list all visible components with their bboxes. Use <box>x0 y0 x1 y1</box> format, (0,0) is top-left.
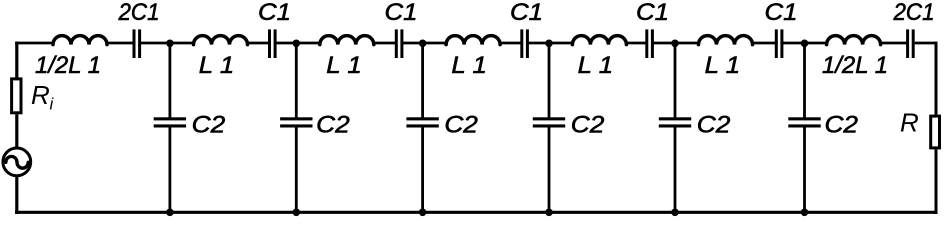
wire <box>881 42 908 45</box>
svg-text:C1: C1 <box>636 0 669 26</box>
label C1 section5 <box>636 0 669 26</box>
label L 1 section2 <box>199 52 235 79</box>
node 3 top junction <box>419 40 427 48</box>
capacitor 2C1 left <box>133 29 142 58</box>
svg-text:L 1: L 1 <box>578 52 614 79</box>
node 3 bottom junction <box>419 209 427 217</box>
node 6 top junction <box>801 40 809 48</box>
label C2 branch3 <box>444 112 478 139</box>
svg-text:C2: C2 <box>697 112 731 139</box>
svg-text:2C1: 2C1 <box>118 0 160 26</box>
wire <box>141 42 194 45</box>
svg-text:1/2L 1: 1/2L 1 <box>35 52 101 79</box>
inductor L1 section2 <box>194 36 248 45</box>
wire <box>753 42 777 45</box>
svg-text:C1: C1 <box>510 0 543 26</box>
label 2C1 left <box>118 0 160 26</box>
inductor 1/2 L1 left <box>53 36 107 45</box>
svg-text:C2: C2 <box>192 112 226 139</box>
label L 1 section6 <box>705 52 741 79</box>
wire bottom rail <box>15 211 937 214</box>
node 1 bottom junction <box>166 209 174 217</box>
inductor L1 section6 <box>699 36 753 45</box>
label C2 branch5 <box>697 112 731 139</box>
node 4 bottom junction <box>545 209 553 217</box>
resistor Ri <box>12 79 21 113</box>
capacitor C2 branch3 <box>406 117 438 127</box>
capacitor C2 branch2 <box>280 117 312 127</box>
svg-text:C2: C2 <box>571 112 605 139</box>
capacitor C2 branch6 <box>788 117 820 127</box>
node 4 top junction <box>545 40 553 48</box>
wire right vertical bottom <box>935 149 938 214</box>
wire <box>277 42 320 45</box>
wire top rail segment corner to L1/2 <box>15 42 54 45</box>
label C2 branch4 <box>571 112 605 139</box>
node 5 bottom junction <box>671 209 679 217</box>
inductor 1/2 L1 right <box>827 36 881 45</box>
label L 1 section5 <box>578 52 614 79</box>
wire <box>107 42 134 45</box>
svg-text:C2: C2 <box>444 112 478 139</box>
wire left vertical bottom <box>15 176 18 214</box>
resistor R <box>931 116 940 148</box>
node 1 top junction <box>166 40 174 48</box>
svg-text:L 1: L 1 <box>451 52 487 79</box>
capacitor 2C1 right <box>906 29 915 58</box>
node 6 bottom junction <box>801 209 809 217</box>
wire <box>654 42 699 45</box>
shunt branch 2 wire lower <box>295 126 298 213</box>
label C1 section4 <box>510 0 543 26</box>
label C2 branch2 <box>316 112 350 139</box>
svg-text:C2: C2 <box>316 112 350 139</box>
label 1/2 L 1 right <box>822 52 888 79</box>
wire <box>626 42 647 45</box>
shunt branch 1 wire upper <box>168 43 171 119</box>
svg-text:R: R <box>900 108 919 138</box>
wire <box>783 42 828 45</box>
label 1/2 L 1 left <box>35 52 101 79</box>
wire right vertical top <box>935 42 938 116</box>
label L 1 section4 <box>451 52 487 79</box>
svg-text:C1: C1 <box>385 0 418 26</box>
label Ri <box>31 80 55 114</box>
svg-text:C2: C2 <box>825 112 859 139</box>
svg-text:C1: C1 <box>765 0 798 26</box>
shunt branch 4 wire upper <box>548 43 551 119</box>
label C2 branch6 <box>825 112 859 139</box>
shunt branch 5 wire lower <box>674 126 677 213</box>
inductor L1 section3 <box>320 36 374 45</box>
capacitor C1 section6 <box>775 29 784 58</box>
svg-text:2C1: 2C1 <box>893 0 935 26</box>
node 2 bottom junction <box>293 209 301 217</box>
shunt branch 3 wire lower <box>421 126 424 213</box>
shunt branch 1 wire lower <box>168 126 171 213</box>
capacitor C2 branch5 <box>659 117 691 127</box>
label R <box>900 108 919 138</box>
wire <box>529 42 573 45</box>
shunt branch 3 wire upper <box>421 43 424 119</box>
svg-text:R: R <box>31 80 50 110</box>
svg-text:C1: C1 <box>258 0 291 26</box>
wire top right corner <box>915 42 938 45</box>
wire left vertical top <box>15 42 18 79</box>
AC source <box>3 148 31 176</box>
label 2C1 right <box>893 0 935 26</box>
shunt branch 6 wire lower <box>803 126 806 213</box>
wire <box>248 42 270 45</box>
label C2 branch1 <box>192 112 226 139</box>
capacitor C1 section3 <box>395 29 404 58</box>
svg-text:1/2L 1: 1/2L 1 <box>822 52 888 79</box>
wire <box>374 42 397 45</box>
svg-text:L 1: L 1 <box>705 52 741 79</box>
svg-text:L 1: L 1 <box>326 52 362 79</box>
node 5 top junction <box>671 40 679 48</box>
node 2 top junction <box>293 40 301 48</box>
wire <box>403 42 446 45</box>
label C1 section3 <box>385 0 418 26</box>
shunt branch 4 wire lower <box>548 126 551 213</box>
wire <box>500 42 522 45</box>
shunt branch 2 wire upper <box>295 43 298 119</box>
capacitor C2 branch1 <box>154 117 186 127</box>
shunt branch 5 wire upper <box>674 43 677 119</box>
capacitor C1 section5 <box>645 29 654 58</box>
wire left vertical middle <box>15 114 18 149</box>
label L 1 section3 <box>326 52 362 79</box>
capacitor C1 section4 <box>520 29 529 58</box>
label C1 section2 <box>258 0 291 26</box>
shunt branch 6 wire upper <box>803 43 806 119</box>
capacitor C2 branch4 <box>533 117 565 127</box>
capacitor C1 section2 <box>268 29 277 58</box>
inductor L1 section5 <box>572 36 626 45</box>
label C1 section6 <box>765 0 798 26</box>
svg-text:L 1: L 1 <box>199 52 235 79</box>
inductor L1 section4 <box>446 36 500 45</box>
